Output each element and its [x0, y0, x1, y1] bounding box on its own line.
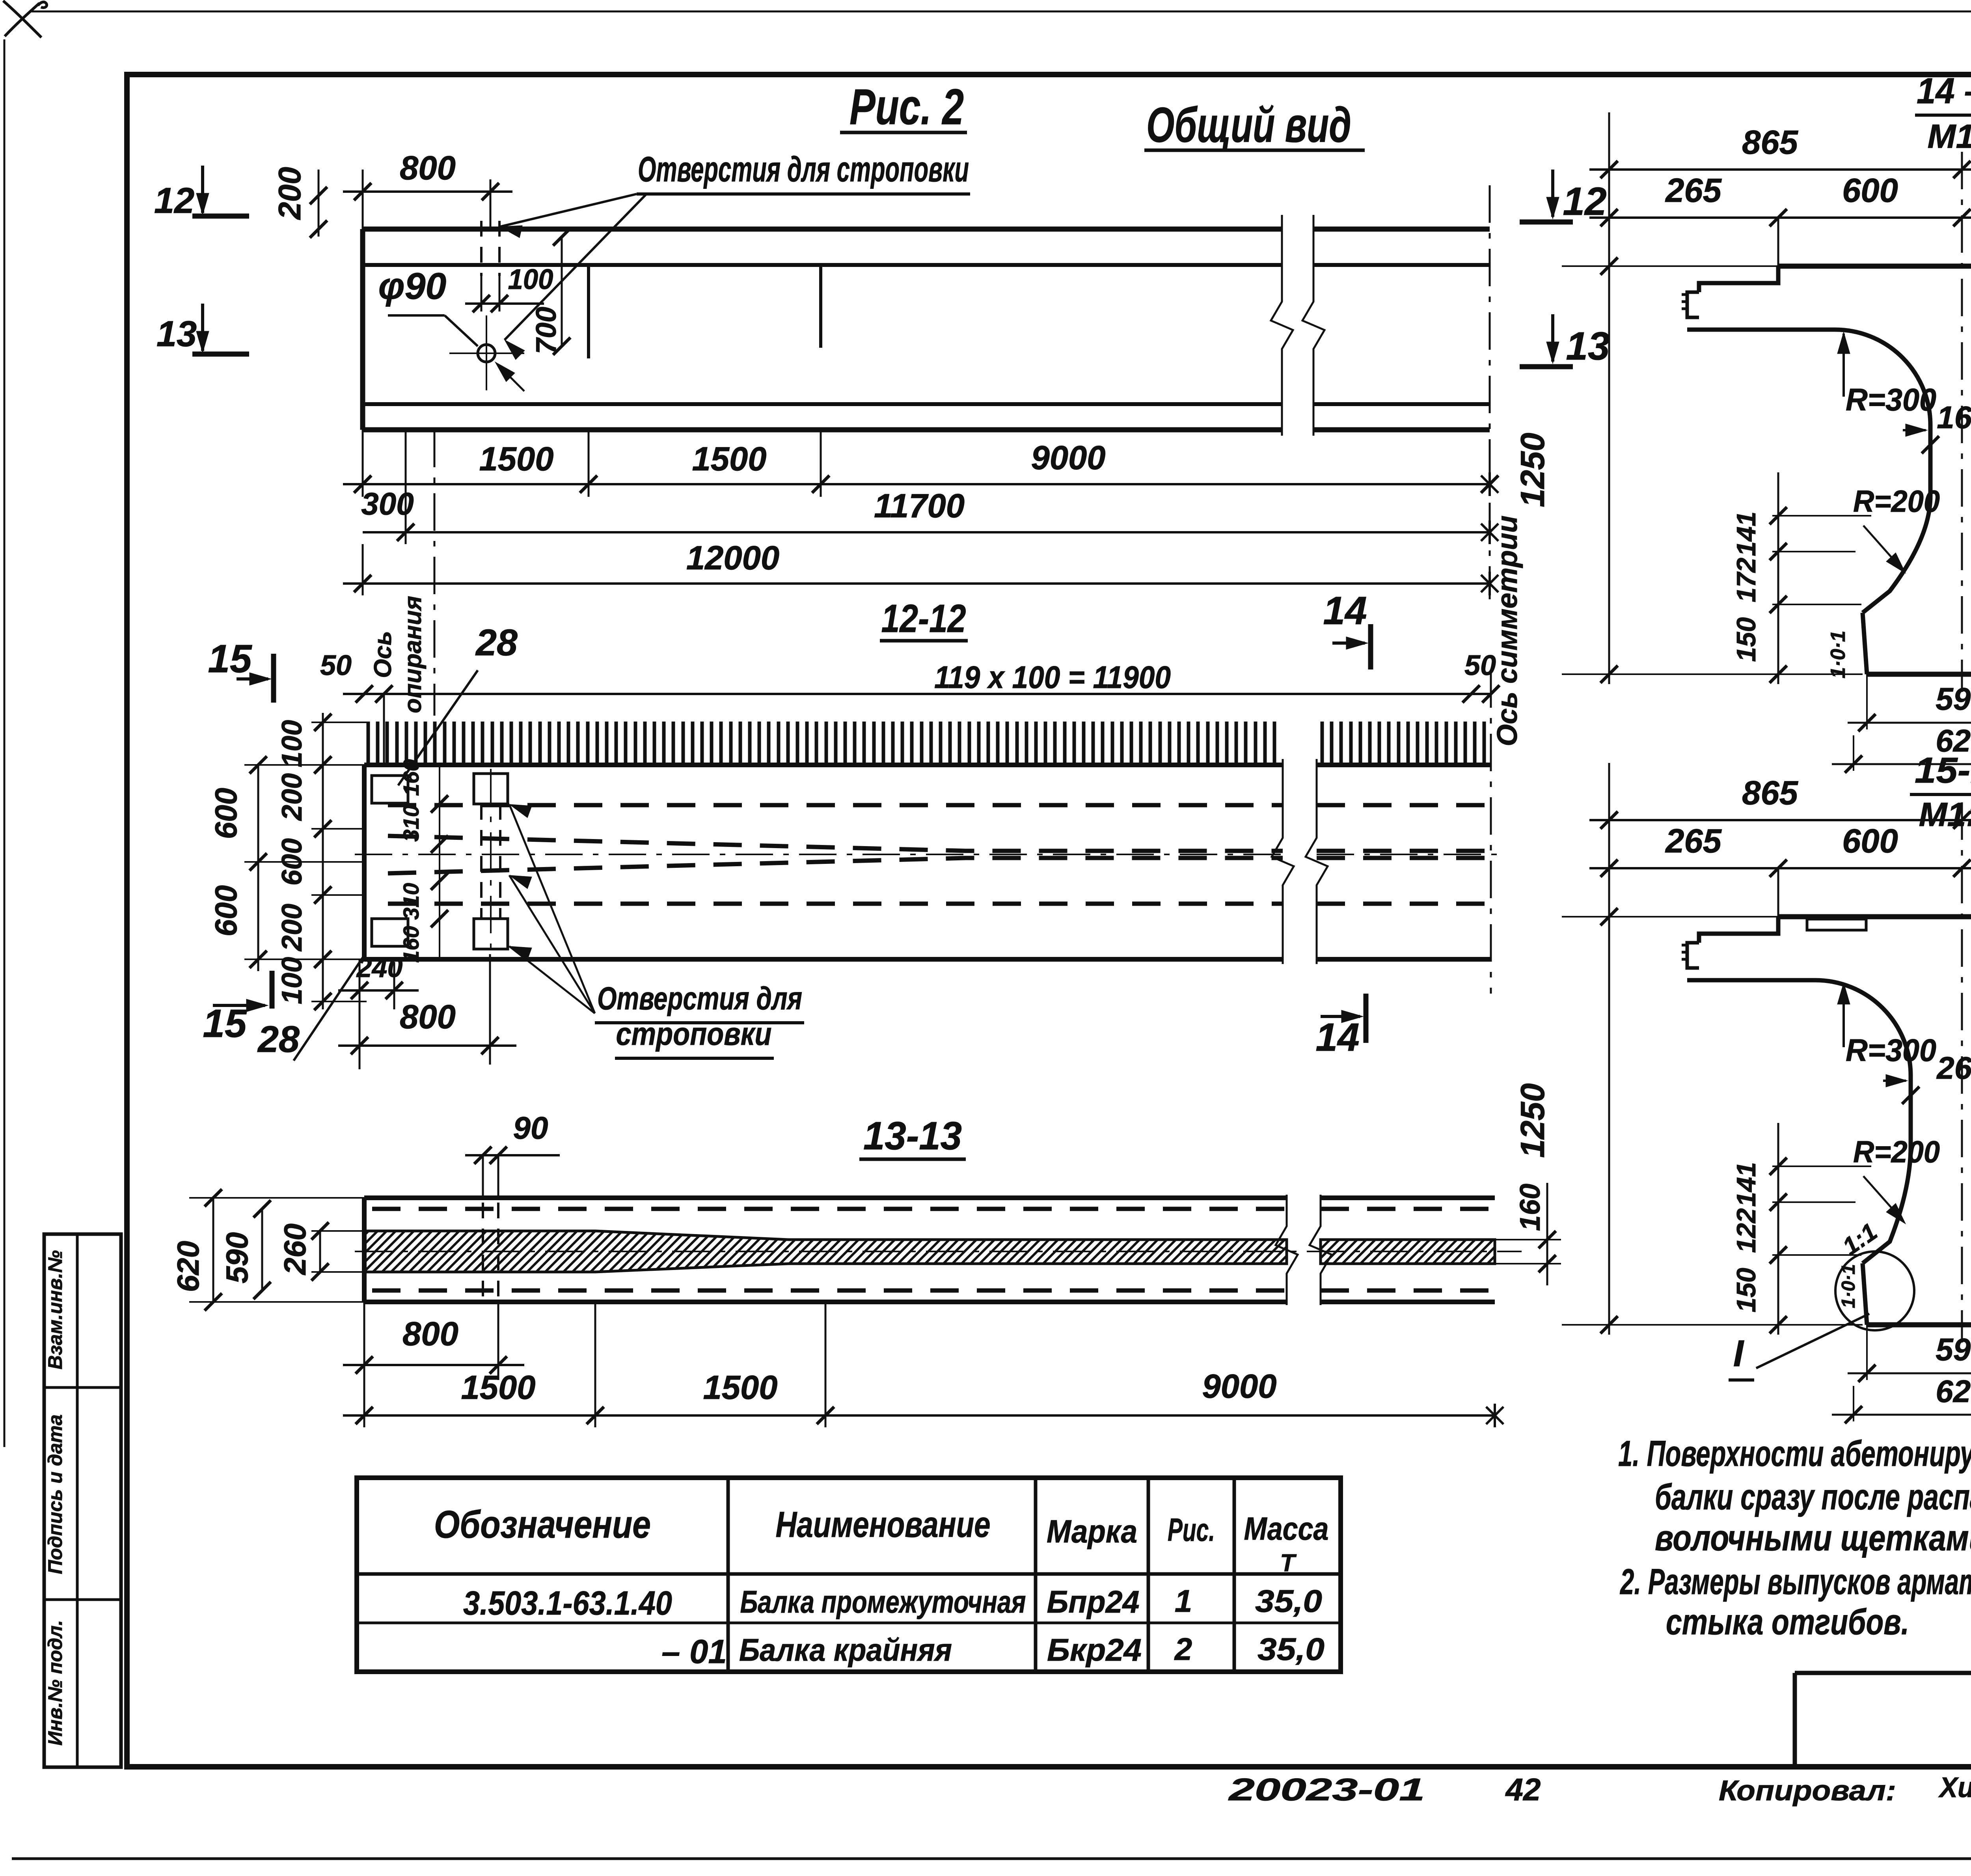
svg-text:Наименование: Наименование — [776, 1505, 991, 1545]
svg-text:М1:20: М1:20 — [1919, 796, 1971, 834]
svg-text:I: I — [1733, 1333, 1745, 1374]
svg-text:стыка отгибов.: стыка отгибов. — [1666, 1602, 1909, 1642]
svg-text:600: 600 — [209, 885, 243, 936]
svg-text:20023-01: 20023-01 — [1228, 1772, 1425, 1807]
svg-text:141: 141 — [1731, 511, 1761, 556]
svg-text:600: 600 — [209, 788, 243, 839]
svg-text:310: 310 — [399, 883, 423, 919]
svg-text:12: 12 — [154, 181, 194, 221]
svg-text:800: 800 — [402, 1315, 458, 1353]
svg-text:590: 590 — [1936, 1332, 1971, 1367]
svg-text:1250: 1250 — [1514, 1083, 1552, 1158]
svg-text:700: 700 — [531, 307, 562, 354]
svg-text:1: 1 — [1175, 1583, 1192, 1619]
svg-text:12-12: 12-12 — [881, 597, 966, 641]
svg-text:50: 50 — [320, 650, 352, 681]
svg-text:590: 590 — [1936, 681, 1971, 716]
svg-text:волочными щетками.: волочными щетками. — [1655, 1518, 1971, 1558]
svg-text:13-13: 13-13 — [863, 1114, 962, 1158]
svg-text:141: 141 — [1731, 1162, 1761, 1207]
svg-text:1500: 1500 — [479, 440, 553, 478]
svg-text:Бкр24: Бкр24 — [1047, 1632, 1142, 1667]
svg-text:– 01: – 01 — [661, 1633, 727, 1671]
svg-text:Ось: Ось — [369, 631, 397, 678]
svg-text:Общий вид: Общий вид — [1146, 98, 1351, 153]
svg-text:100: 100 — [276, 957, 308, 1004]
svg-text:Обозначение: Обозначение — [434, 1503, 651, 1546]
svg-text:14 – 14: 14 – 14 — [1917, 71, 1971, 111]
svg-text:строповки: строповки — [616, 1016, 772, 1052]
svg-text:122: 122 — [1731, 1208, 1761, 1253]
svg-text:600: 600 — [1842, 172, 1898, 209]
svg-text:2. Размеры выпусков арматур: 2. Размеры выпусков арматуры плиты указа… — [1620, 1562, 1971, 1602]
svg-text:15: 15 — [203, 1001, 247, 1046]
svg-text:800: 800 — [400, 149, 456, 187]
svg-text:Ось симметрии: Ось симметрии — [1492, 515, 1523, 746]
svg-text:R=200: R=200 — [1853, 1134, 1940, 1169]
svg-text:11700: 11700 — [874, 487, 965, 525]
svg-text:3.503.1-63.1.40: 3.503.1-63.1.40 — [463, 1585, 672, 1622]
svg-text:Подпись и дата: Подпись и дата — [44, 1414, 66, 1574]
svg-text:Рис.: Рис. — [1168, 1512, 1215, 1548]
svg-text:14: 14 — [1315, 1015, 1359, 1059]
svg-text:100: 100 — [508, 264, 553, 295]
svg-text:Масса: Масса — [1244, 1511, 1329, 1547]
svg-text:28: 28 — [257, 1018, 300, 1060]
svg-text:150: 150 — [1731, 1268, 1761, 1313]
svg-text:620: 620 — [1936, 1374, 1971, 1409]
svg-text:1500: 1500 — [703, 1369, 777, 1406]
svg-text:265: 265 — [1665, 172, 1722, 209]
svg-text:1·0·1: 1·0·1 — [1827, 630, 1850, 678]
svg-text:160: 160 — [1937, 400, 1971, 435]
svg-text:Инв.№ подл.: Инв.№ подл. — [44, 1620, 66, 1745]
svg-text:260: 260 — [278, 1223, 312, 1276]
svg-text:15: 15 — [208, 637, 252, 681]
svg-text:Балка крайняя: Балка крайняя — [739, 1632, 952, 1667]
svg-text:Копировал:: Копировал: — [1719, 1775, 1896, 1807]
svg-text:М1:20: М1:20 — [1928, 118, 1971, 155]
svg-text:2: 2 — [1174, 1632, 1192, 1667]
svg-text:φ90: φ90 — [378, 265, 447, 307]
svg-text:Т: Т — [1280, 1550, 1297, 1577]
svg-text:260: 260 — [1936, 1050, 1971, 1085]
svg-text:R=300: R=300 — [1846, 382, 1936, 417]
svg-text:600: 600 — [1842, 822, 1898, 860]
svg-text:1500: 1500 — [461, 1369, 535, 1406]
svg-text:200: 200 — [272, 167, 307, 220]
svg-text:310: 310 — [399, 805, 423, 841]
svg-text:9000: 9000 — [1031, 439, 1105, 477]
svg-text:200: 200 — [276, 904, 308, 952]
svg-text:Марка: Марка — [1047, 1514, 1137, 1550]
svg-text:1500: 1500 — [692, 440, 766, 478]
svg-text:13: 13 — [156, 314, 197, 354]
svg-text:1250: 1250 — [1514, 433, 1552, 507]
svg-text:35,0: 35,0 — [1257, 1632, 1325, 1667]
svg-text:620: 620 — [171, 1241, 205, 1292]
svg-text:150: 150 — [1731, 617, 1761, 662]
svg-text:35,0: 35,0 — [1255, 1583, 1322, 1619]
svg-text:160: 160 — [1515, 1184, 1546, 1231]
svg-text:9000: 9000 — [1202, 1368, 1276, 1405]
svg-text:865: 865 — [1742, 774, 1799, 812]
svg-text:Взам.инв.№: Взам.инв.№ — [44, 1250, 66, 1369]
svg-text:1. Поверхности абетонируемых: 1. Поверхности абетонируемых боковых гра… — [1618, 1434, 1971, 1474]
svg-text:800: 800 — [400, 998, 456, 1036]
svg-text:240: 240 — [356, 952, 403, 983]
svg-text:Рис. 2: Рис. 2 — [850, 79, 964, 135]
svg-text:172: 172 — [1731, 558, 1761, 602]
svg-text:балки сразу после распалубк: балки сразу после распалубки обрабатываю… — [1655, 1477, 1971, 1517]
svg-text:12000: 12000 — [686, 539, 779, 577]
svg-text:R=300: R=300 — [1846, 1033, 1936, 1068]
svg-text:300: 300 — [361, 486, 414, 521]
svg-text:Отверстия для строповки: Отверстия для строповки — [638, 150, 969, 189]
svg-text:865: 865 — [1742, 124, 1799, 161]
svg-text:R=200: R=200 — [1853, 484, 1940, 518]
svg-text:265: 265 — [1665, 822, 1722, 860]
svg-text:Отверстия для: Отверстия для — [597, 981, 802, 1016]
svg-text:14: 14 — [1323, 589, 1367, 633]
svg-text:Хирмале: Хирмале — [1938, 1772, 1971, 1803]
svg-text:Бпр24: Бпр24 — [1047, 1584, 1140, 1619]
svg-text:119 x 100 = 11900: 119 x 100 = 11900 — [934, 660, 1171, 695]
svg-text:15-15: 15-15 — [1915, 750, 1971, 791]
svg-text:28: 28 — [475, 622, 518, 664]
svg-text:200: 200 — [276, 773, 308, 821]
svg-text:42: 42 — [1505, 1772, 1541, 1807]
svg-text:13: 13 — [1566, 324, 1610, 368]
svg-text:Балка промежуточная: Балка промежуточная — [740, 1584, 1026, 1619]
svg-text:опирания: опирания — [399, 596, 427, 713]
svg-text:100: 100 — [276, 720, 308, 767]
svg-text:590: 590 — [220, 1232, 254, 1283]
svg-text:90: 90 — [513, 1110, 548, 1145]
